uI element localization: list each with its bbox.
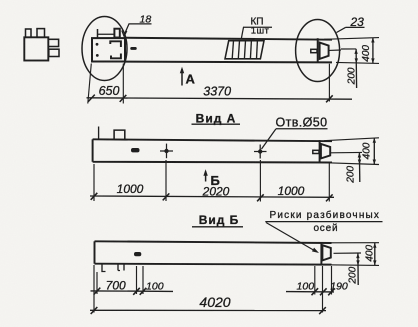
dim 200 right (view B) bbox=[334, 252, 362, 254]
dim 400 right (view A) bbox=[324, 138, 379, 141]
label riski bbox=[269, 209, 380, 234]
riska tick left bbox=[98, 127, 100, 140]
detail ellipse left bbox=[82, 17, 127, 81]
corrugated sleeve KP bbox=[225, 41, 264, 59]
label KP 1sht bbox=[250, 17, 269, 37]
bottom dims view A: 1000 2020 1000 bbox=[90, 196, 334, 197]
leader riski bbox=[266, 223, 316, 252]
anchor loop on top bbox=[114, 130, 125, 139]
dim texts 1000 2020 1000 bbox=[117, 182, 305, 198]
trapezoid A bbox=[321, 144, 330, 159]
beam bottom edge bbox=[124, 61, 332, 64]
label 23 leader bbox=[350, 15, 365, 29]
end recess trapezoid bbox=[320, 43, 329, 59]
dims 700 / 100 (view B left) bbox=[91, 290, 174, 293]
leader Otv bbox=[262, 129, 277, 149]
ext left bbox=[88, 64, 92, 104]
axis tab A bbox=[313, 150, 319, 153]
ticks bbox=[88, 95, 95, 102]
dim texts 700 100 bbox=[106, 278, 164, 292]
hole cross 2 bbox=[254, 151, 267, 153]
leader KP bbox=[241, 27, 243, 39]
section side tab lower bbox=[49, 49, 59, 56]
beam outline view B bbox=[95, 241, 332, 243]
section top lug left bbox=[26, 29, 32, 37]
bolt dot bbox=[96, 43, 99, 46]
ext right bbox=[328, 64, 330, 102]
dim text 4020 bbox=[199, 294, 230, 310]
hole cross 1 bbox=[160, 150, 173, 152]
small slot plate bbox=[130, 47, 136, 50]
small slot plate bbox=[134, 252, 141, 256]
label riski underline bbox=[265, 221, 382, 223]
dim texts 650 / 3370 bbox=[99, 84, 232, 98]
right joint line bbox=[317, 38, 319, 62]
right joint line A bbox=[319, 140, 321, 162]
dim 200 right (view A) bbox=[331, 151, 362, 153]
dim texts 100 190 bbox=[297, 280, 348, 292]
right joint line B bbox=[320, 243, 322, 265]
dim 4020 bbox=[90, 309, 326, 311]
beam top edge bbox=[124, 38, 332, 40]
riska tick on top bbox=[97, 29, 99, 38]
center line stub bbox=[329, 49, 341, 51]
axis tab bbox=[311, 49, 317, 52]
label KP underline bbox=[243, 26, 272, 28]
dim 200 right (top view) bbox=[341, 48, 356, 50]
flat plate on top bbox=[98, 33, 115, 35]
detail ellipse right bbox=[296, 20, 340, 82]
section side tab upper bbox=[48, 39, 58, 46]
dim line 650 / 3370 bbox=[87, 98, 353, 99]
title underline A bbox=[192, 123, 241, 125]
view arrow A bbox=[181, 69, 183, 86]
dim 400 right (top view) bbox=[324, 38, 379, 40]
view arrow B bbox=[205, 172, 207, 182]
section top lug right bbox=[37, 29, 45, 38]
ext mid bbox=[122, 64, 124, 104]
small slot plate bbox=[131, 148, 140, 152]
section body bbox=[24, 37, 48, 60]
end block (left embedded detail) bbox=[92, 38, 125, 61]
riska ticks bottom left bbox=[102, 264, 106, 271]
dims 100 / 190 (view B right) bbox=[286, 291, 334, 293]
anchor square 18 bbox=[114, 29, 119, 38]
label Otv underline bbox=[276, 128, 328, 130]
title underline B bbox=[192, 226, 243, 228]
trapezoid B bbox=[322, 245, 330, 260]
bolt dot bbox=[96, 54, 99, 57]
embedded bracket bbox=[110, 41, 121, 58]
label 18 leader bbox=[140, 14, 152, 26]
label Otv D50 bbox=[276, 115, 328, 129]
beam outline view A bbox=[93, 139, 332, 141]
dim 400 right (view B) bbox=[326, 242, 379, 244]
